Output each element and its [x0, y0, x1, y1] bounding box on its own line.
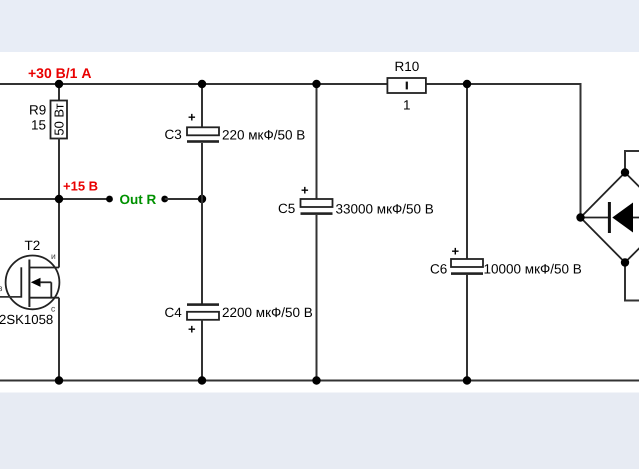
capacitor C4 [165, 303, 313, 336]
diamond edge upper-left [581, 173, 626, 218]
top band [0, 0, 639, 52]
svg-text:33000 мкФ/50 В: 33000 мкФ/50 В [336, 202, 434, 217]
diamond edge lower-right [625, 218, 639, 263]
C6 negative plate [451, 272, 483, 275]
C4 positive plate [187, 312, 219, 320]
wire T2 drain to bottom rail [58, 298, 60, 381]
svg-text:+30 В/1 А: +30 В/1 А [28, 65, 91, 81]
R10 power rating mark 1W [406, 82, 408, 90]
wire C3 bottom through mid node to C4 [201, 143, 203, 304]
junction dot rail at C6 [463, 80, 471, 88]
diode cathode bar [608, 202, 611, 233]
wire C5 top lead [316, 84, 318, 200]
C3 positive plate [187, 127, 219, 135]
diode anode line [581, 217, 609, 219]
junction dot rail at R9 [55, 80, 63, 88]
capacitor C3 [165, 110, 306, 143]
wire bridge bottom ac lead [625, 263, 639, 301]
gate bar [20, 267, 22, 297]
R10 body [387, 78, 426, 93]
svg-text:з: з [0, 283, 3, 293]
junction dot bridge top [621, 168, 629, 176]
wire bottom rail [0, 380, 639, 382]
substrate arrow [31, 278, 41, 287]
wire C6 bottom lead [466, 274, 468, 381]
diode triangle [612, 203, 633, 233]
resistor R9 [29, 101, 67, 139]
wire C3 top lead [201, 84, 203, 128]
wire top rail drop to bridge [580, 83, 582, 218]
svg-text:2200 мкФ/50 В: 2200 мкФ/50 В [222, 305, 313, 320]
junction dot bottom rail at T2 [55, 376, 63, 384]
svg-text:C6: C6 [430, 262, 447, 277]
C5 negative plate [301, 212, 333, 215]
svg-text:и: и [51, 251, 56, 261]
junction dot +15 node [55, 195, 63, 203]
source lead [29, 267, 59, 269]
svg-text:+: + [188, 322, 196, 337]
terminal dot out right [161, 196, 168, 203]
junction dot bridge left [576, 213, 584, 221]
svg-text:C5: C5 [278, 201, 295, 216]
wire bridge top ac lead [625, 151, 639, 173]
svg-text:2SK1058: 2SK1058 [0, 312, 53, 327]
capacitor C6 [430, 244, 582, 277]
junction dot bottom rail at C4 [198, 376, 206, 384]
junction dot bridge bottom [621, 258, 629, 266]
diamond edge lower-left [581, 218, 626, 263]
wire out terminal to C3 junction [165, 198, 202, 200]
wire C5 bottom lead [316, 215, 318, 381]
wire top rail +30V [0, 83, 581, 85]
transistor Q T2 2SK1058 [0, 238, 59, 327]
junction dot C3/C4 mid [198, 195, 206, 203]
svg-text:+: + [188, 110, 196, 125]
C6 positive plate [451, 259, 483, 267]
svg-text:T2: T2 [25, 238, 41, 253]
bottom band [0, 393, 639, 469]
wire R9 top lead [58, 84, 60, 101]
svg-text:50 Вт: 50 Вт [51, 103, 66, 135]
diamond edge upper-right [625, 173, 639, 218]
drain lead [29, 297, 59, 299]
svg-text:R10: R10 [395, 59, 420, 74]
diode right lead [633, 217, 639, 219]
bridge rectifier VD [576, 151, 639, 301]
junction dot bottom rail at C6 [463, 376, 471, 384]
svg-text:C3: C3 [165, 127, 182, 142]
C5 positive plate [301, 199, 333, 207]
svg-text:R9: R9 [29, 103, 46, 118]
junction dot rail at C5 [312, 80, 320, 88]
svg-text:+: + [301, 183, 309, 198]
wire R9 bottom to T2 source [58, 138, 60, 268]
svg-text:10000 мкФ/50 В: 10000 мкФ/50 В [484, 262, 582, 277]
wire C4 bottom lead [201, 320, 203, 381]
svg-text:C4: C4 [165, 305, 183, 320]
svg-text:220 мкФ/50 В: 220 мкФ/50 В [222, 127, 305, 142]
svg-text:Out R: Out R [120, 192, 157, 207]
terminal dot out left [106, 196, 113, 203]
svg-text:+: + [452, 244, 460, 259]
svg-text:1: 1 [403, 98, 411, 113]
svg-text:+15 В: +15 В [63, 179, 98, 194]
C4 negative plate [187, 303, 219, 306]
junction dot rail at C3 [198, 80, 206, 88]
svg-text:15: 15 [31, 118, 46, 133]
C3 negative plate [187, 140, 219, 143]
wire C6 top lead [466, 84, 468, 260]
R9 body [51, 101, 68, 139]
channel bar [28, 260, 30, 308]
wire +15 node horizontal [0, 198, 109, 200]
junction dot bottom rail at C5 [312, 376, 320, 384]
capacitor C5 [278, 183, 434, 217]
gate lead wire [0, 296, 21, 298]
resistor R10 [387, 59, 426, 113]
